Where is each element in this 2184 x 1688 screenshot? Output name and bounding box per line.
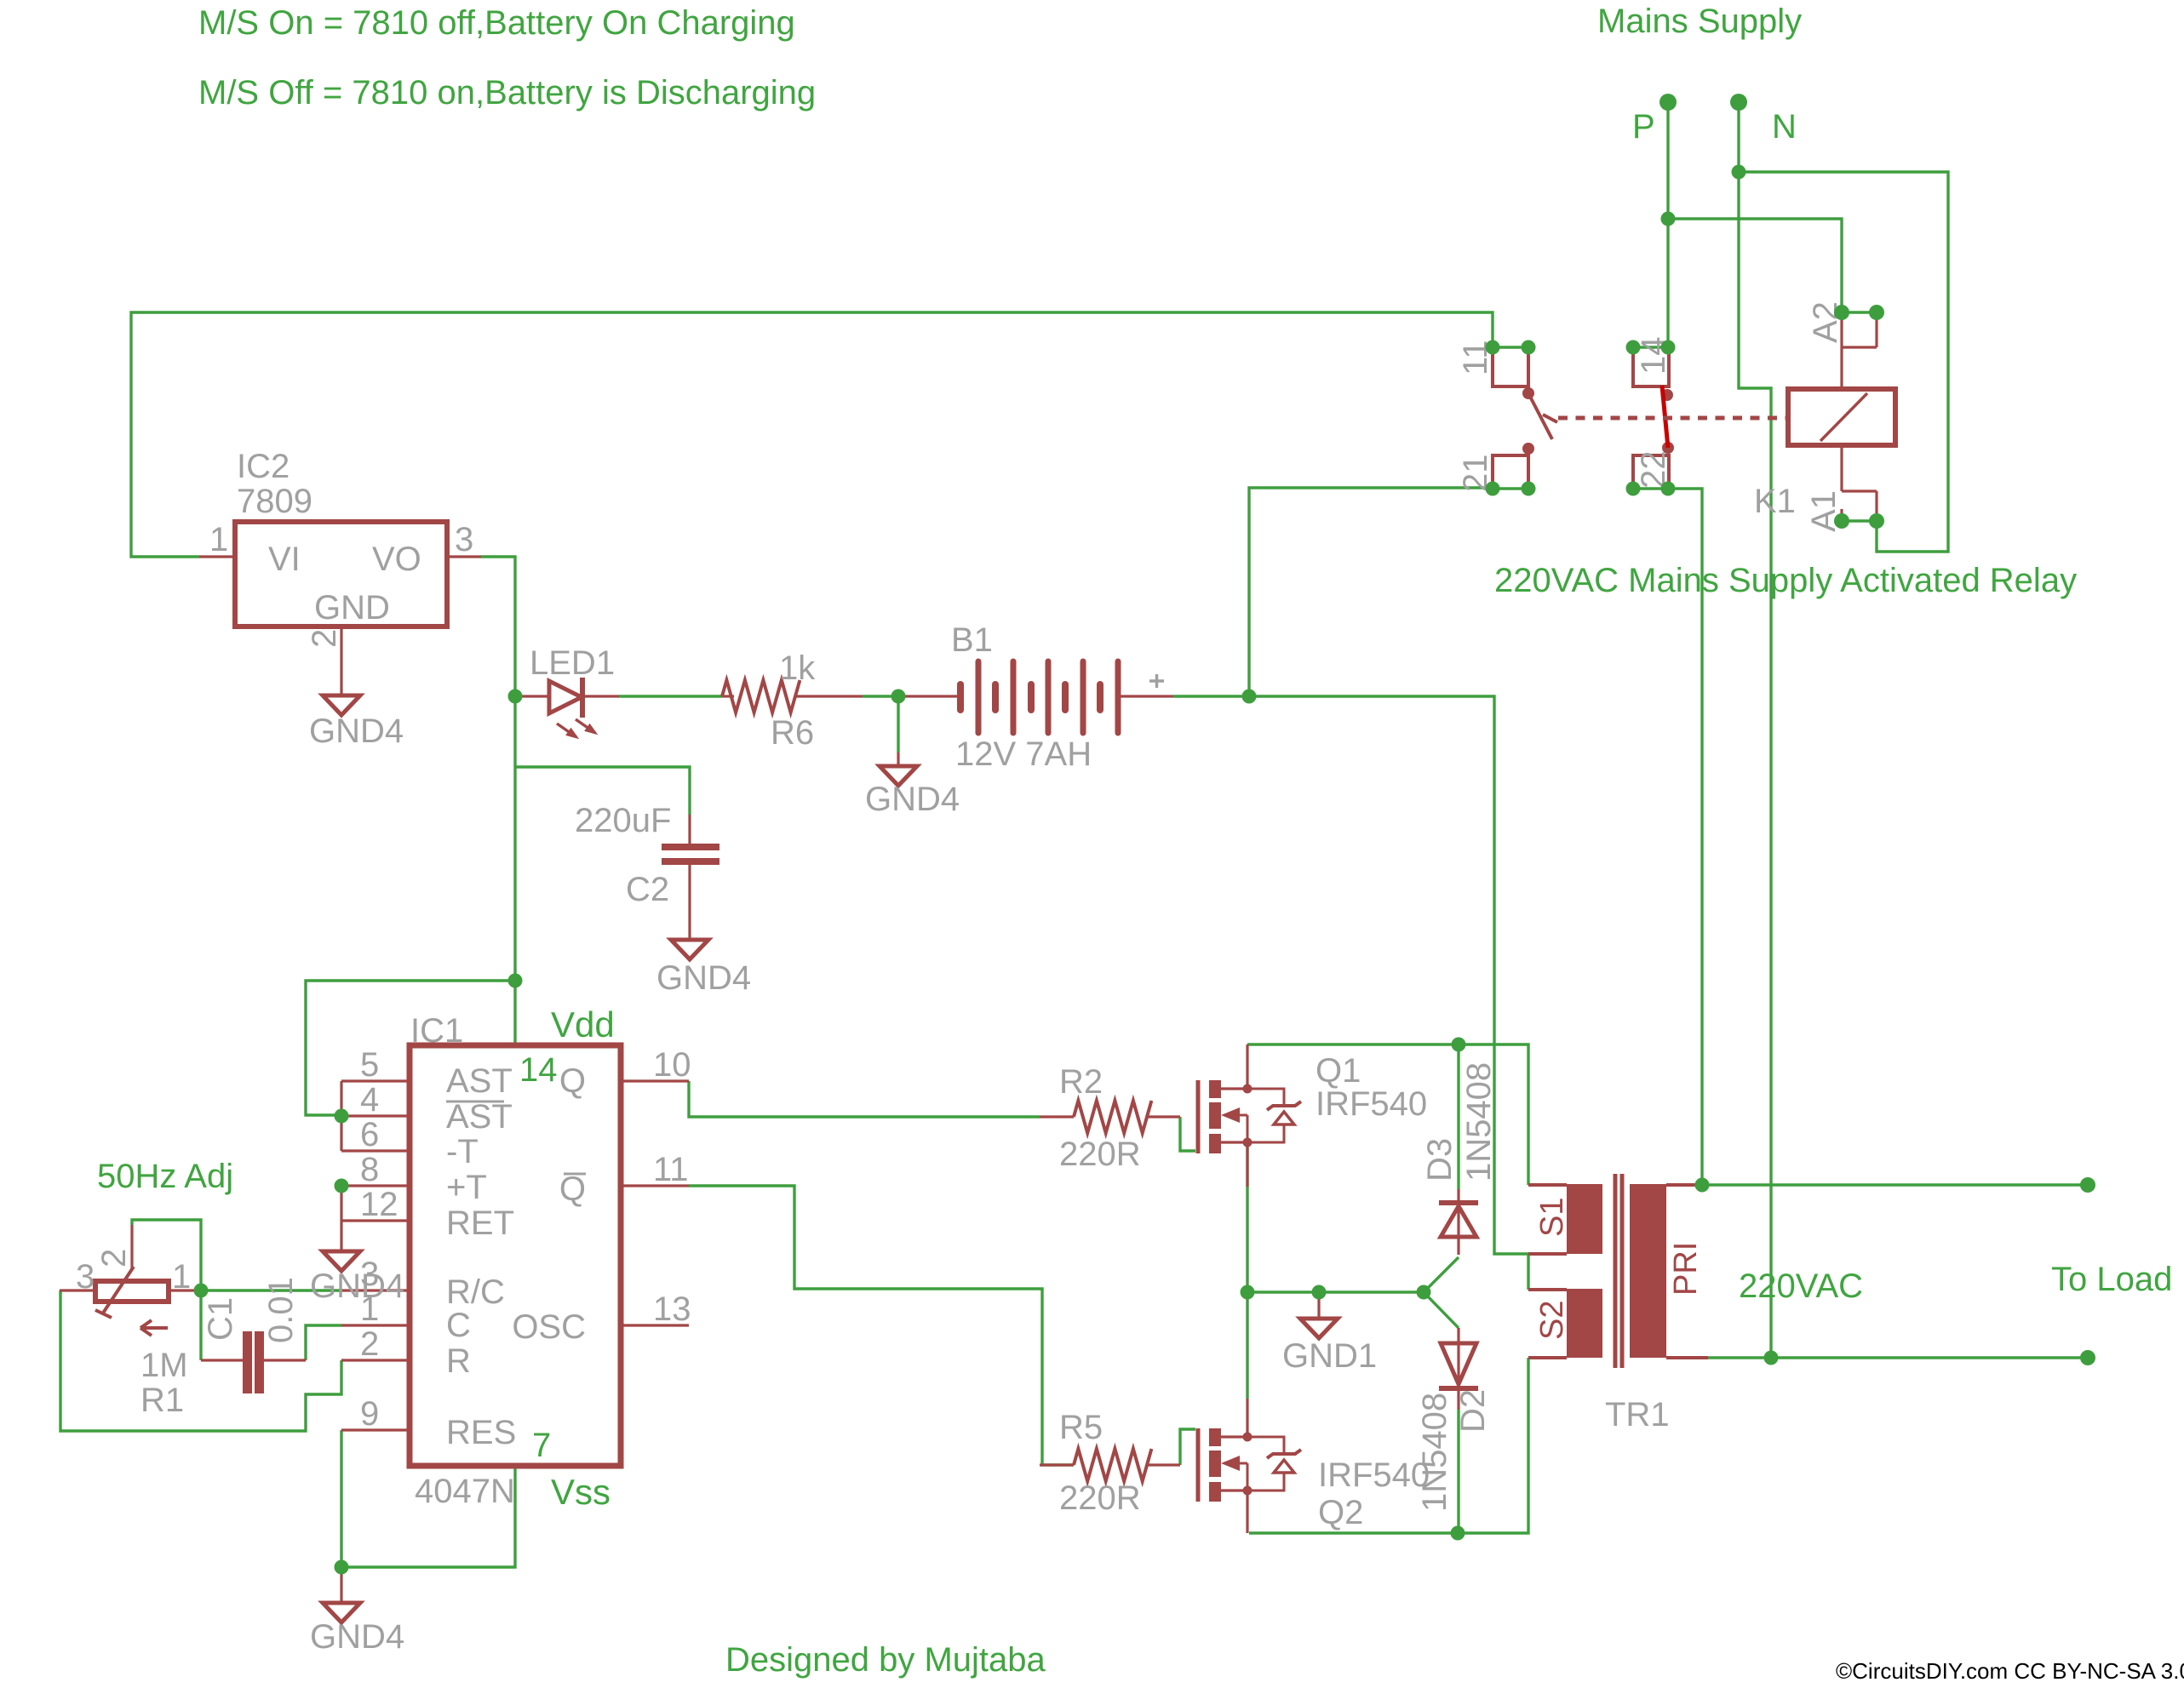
svg-text:Vss: Vss bbox=[551, 1472, 610, 1512]
svg-text:AST: AST bbox=[446, 1098, 513, 1136]
svg-text:P: P bbox=[1632, 108, 1655, 146]
svg-text:R6: R6 bbox=[771, 714, 814, 752]
svg-text:D3: D3 bbox=[1421, 1138, 1459, 1182]
svg-text:OSC: OSC bbox=[512, 1308, 586, 1346]
svg-text:R: R bbox=[446, 1342, 471, 1380]
svg-text:7809: 7809 bbox=[237, 483, 312, 520]
svg-text:2: 2 bbox=[360, 1325, 379, 1363]
svg-text:4047N: 4047N bbox=[415, 1473, 515, 1510]
svg-text:+T: +T bbox=[446, 1169, 487, 1206]
svg-text:220uF: 220uF bbox=[575, 802, 671, 839]
svg-text:GND1: GND1 bbox=[1282, 1337, 1377, 1375]
svg-text:D2: D2 bbox=[1454, 1389, 1492, 1433]
svg-text:220VAC: 220VAC bbox=[1739, 1267, 1863, 1305]
svg-text:IRF540: IRF540 bbox=[1318, 1456, 1430, 1494]
svg-text:Q: Q bbox=[559, 1062, 586, 1100]
svg-text:K1: K1 bbox=[1754, 483, 1796, 520]
svg-text:N: N bbox=[1772, 108, 1797, 146]
svg-text:GND4: GND4 bbox=[310, 1267, 404, 1305]
svg-text:RES: RES bbox=[446, 1414, 516, 1451]
svg-text:R1: R1 bbox=[140, 1382, 184, 1419]
svg-text:PRI: PRI bbox=[1668, 1242, 1704, 1296]
svg-text:AST: AST bbox=[446, 1062, 513, 1100]
svg-text:Q2: Q2 bbox=[1318, 1494, 1363, 1531]
svg-text:10: 10 bbox=[653, 1046, 691, 1084]
svg-text:14: 14 bbox=[519, 1051, 558, 1089]
svg-text:RET: RET bbox=[446, 1204, 514, 1242]
svg-text:6: 6 bbox=[360, 1116, 379, 1153]
svg-text:©CircuitsDIY.com CC BY-NC-SA 3: ©CircuitsDIY.com CC BY-NC-SA 3.0 bbox=[1836, 1658, 2184, 1684]
svg-text:1N5408: 1N5408 bbox=[1460, 1062, 1498, 1182]
svg-text:8: 8 bbox=[360, 1151, 379, 1188]
svg-text:3: 3 bbox=[76, 1258, 95, 1296]
svg-text:5: 5 bbox=[360, 1046, 379, 1084]
svg-text:0.01: 0.01 bbox=[262, 1277, 300, 1343]
svg-text:1M: 1M bbox=[140, 1347, 188, 1384]
svg-text:LED1: LED1 bbox=[530, 644, 615, 682]
svg-text:220VAC Mains Supply Activated: 220VAC Mains Supply Activated Relay bbox=[1494, 562, 2077, 599]
svg-text:M/S Off = 7810 on,Battery is D: M/S Off = 7810 on,Battery is Discharging bbox=[198, 74, 816, 112]
svg-text:Q: Q bbox=[559, 1170, 586, 1208]
svg-text:50Hz Adj: 50Hz Adj bbox=[97, 1158, 233, 1195]
svg-text:2: 2 bbox=[95, 1249, 133, 1267]
svg-text:11: 11 bbox=[653, 1151, 689, 1188]
svg-text:To Load: To Load bbox=[2051, 1261, 2172, 1298]
svg-text:R/C: R/C bbox=[446, 1273, 505, 1311]
svg-text:GND4: GND4 bbox=[865, 781, 960, 818]
svg-text:VO: VO bbox=[372, 541, 421, 578]
svg-text:9: 9 bbox=[360, 1395, 379, 1433]
svg-text:C2: C2 bbox=[626, 871, 669, 908]
svg-text:S2: S2 bbox=[1534, 1301, 1570, 1340]
svg-text:Designed by Mujtaba: Designed by Mujtaba bbox=[725, 1641, 1046, 1679]
svg-text:7: 7 bbox=[532, 1427, 551, 1464]
svg-text:M/S On = 7810 off,Battery On C: M/S On = 7810 off,Battery On Charging bbox=[198, 4, 795, 42]
svg-text:C1: C1 bbox=[202, 1297, 239, 1341]
svg-text:12: 12 bbox=[360, 1186, 398, 1223]
svg-text:Mains Supply: Mains Supply bbox=[1597, 3, 1802, 40]
svg-text:R2: R2 bbox=[1059, 1063, 1103, 1101]
svg-text:2: 2 bbox=[306, 629, 343, 648]
svg-text:TR1: TR1 bbox=[1605, 1396, 1670, 1433]
svg-text:GND4: GND4 bbox=[310, 1618, 404, 1656]
svg-text:Q1: Q1 bbox=[1316, 1052, 1361, 1090]
svg-text:1: 1 bbox=[172, 1258, 191, 1296]
svg-text:3: 3 bbox=[455, 521, 473, 558]
svg-text:R5: R5 bbox=[1059, 1409, 1103, 1446]
svg-text:12V 7AH: 12V 7AH bbox=[955, 735, 1092, 773]
svg-text:IC2: IC2 bbox=[237, 448, 289, 485]
svg-text:220R: 220R bbox=[1059, 1479, 1141, 1517]
svg-text:4: 4 bbox=[360, 1081, 379, 1119]
svg-text:1: 1 bbox=[209, 521, 228, 558]
svg-text:13: 13 bbox=[653, 1290, 691, 1328]
svg-text:B1: B1 bbox=[951, 621, 993, 659]
svg-text:VI: VI bbox=[268, 541, 301, 578]
svg-text:Vdd: Vdd bbox=[551, 1004, 615, 1044]
svg-text:IC1: IC1 bbox=[410, 1012, 463, 1050]
svg-text:-T: -T bbox=[446, 1133, 479, 1170]
svg-text:GND4: GND4 bbox=[656, 959, 751, 997]
svg-text:IRF540: IRF540 bbox=[1316, 1085, 1427, 1123]
svg-text:GND: GND bbox=[314, 589, 390, 627]
svg-text:1k: 1k bbox=[779, 649, 816, 687]
svg-text:220R: 220R bbox=[1059, 1136, 1141, 1173]
svg-text:GND4: GND4 bbox=[309, 712, 404, 750]
svg-text:1N5408: 1N5408 bbox=[1416, 1393, 1453, 1512]
svg-text:C: C bbox=[446, 1307, 471, 1344]
svg-text:S1: S1 bbox=[1534, 1198, 1570, 1237]
